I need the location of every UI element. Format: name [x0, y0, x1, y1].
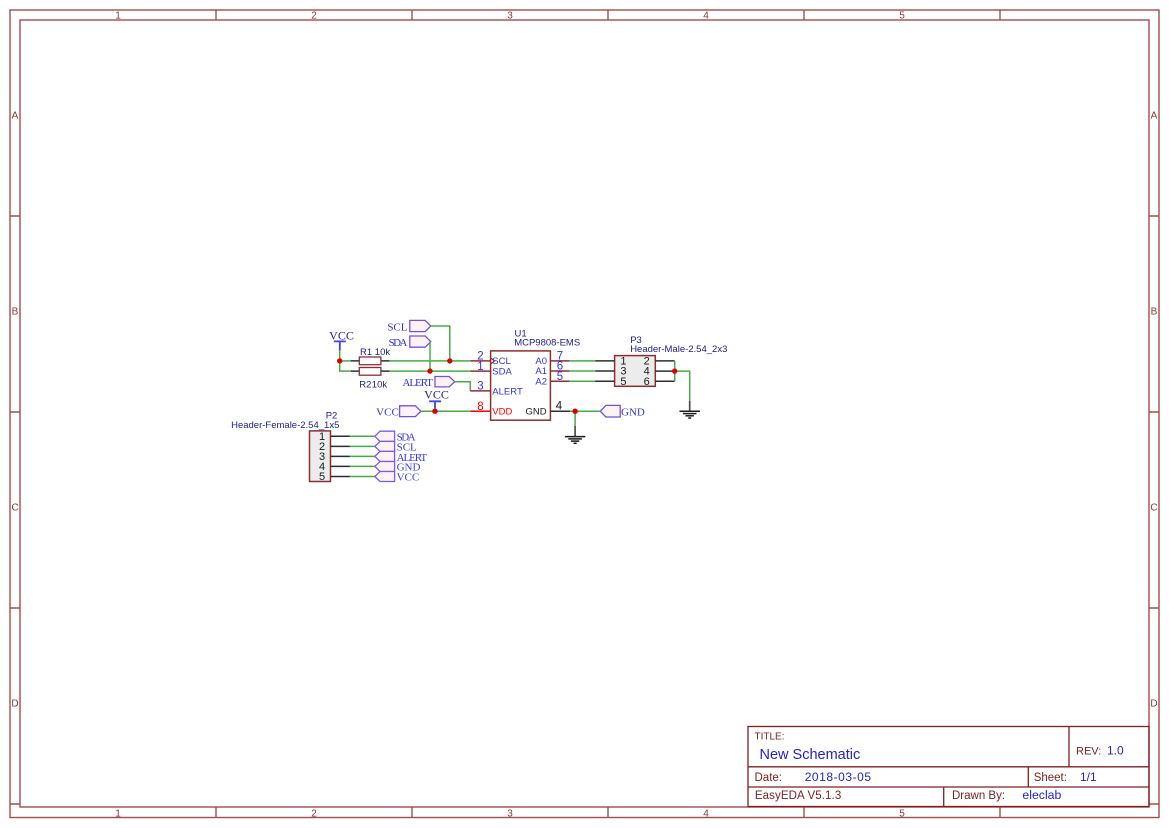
- junction node E: [572, 409, 577, 414]
- svg-text:VCC: VCC: [397, 472, 420, 484]
- wire VCC flag to U1 pin 8: [421, 410, 471, 412]
- U1 pin 6 A1: [535, 361, 569, 378]
- U1 pin 4 GND: [525, 401, 570, 418]
- P3 pin 3: [595, 366, 626, 378]
- svg-text:EasyEDA V5.1.3: EasyEDA V5.1.3: [755, 790, 841, 802]
- header P2 body: [310, 431, 331, 482]
- wire ALERT flag to U1 pin 3: [455, 382, 471, 391]
- IC U1 MCP9808-EMS body: [491, 351, 551, 420]
- net flag SCL (P2): [375, 441, 417, 453]
- P3 pin 1: [595, 356, 626, 368]
- wire U1 A0 to P3 pin1: [570, 360, 596, 362]
- svg-text:New Schematic: New Schematic: [760, 747, 861, 763]
- wire R2 right to U1 SDA: [390, 370, 471, 372]
- svg-text:GND: GND: [525, 407, 546, 418]
- wire U1 pin4 to GND flag: [570, 410, 600, 412]
- resistor R1: [351, 357, 390, 365]
- header P3 body: [615, 356, 656, 387]
- svg-text:D: D: [1150, 699, 1157, 710]
- svg-text:Header-Female-2.54_1x5: Header-Female-2.54_1x5: [231, 420, 339, 431]
- junction node F: [672, 368, 677, 373]
- U1 pin 2 SCL: [470, 351, 510, 368]
- wire SDA flag to node C: [429, 342, 431, 372]
- U1 pin 7 A0: [535, 351, 569, 368]
- wire SCL flag to node B: [431, 326, 450, 361]
- svg-text:4: 4: [556, 401, 563, 413]
- P2 pin 3: [319, 451, 350, 463]
- svg-text:VDD: VDD: [492, 407, 512, 418]
- junction node B: [447, 358, 452, 363]
- svg-text:8: 8: [477, 401, 483, 413]
- net flag VCC: [376, 406, 421, 419]
- resistor R2: [351, 368, 390, 376]
- svg-text:2: 2: [311, 11, 317, 22]
- svg-text:1: 1: [115, 809, 121, 820]
- svg-text:3: 3: [477, 381, 483, 393]
- svg-text:1/1: 1/1: [1080, 770, 1097, 784]
- net flag SDA: [389, 336, 431, 349]
- svg-text:5: 5: [899, 11, 905, 22]
- wire VCC mid stem: [434, 408, 436, 411]
- svg-text:5: 5: [899, 809, 905, 820]
- svg-text:6: 6: [644, 376, 650, 388]
- svg-text:2018-03-05: 2018-03-05: [805, 770, 872, 784]
- svg-text:C: C: [1150, 503, 1157, 514]
- svg-text:D: D: [11, 699, 18, 710]
- svg-text:5: 5: [319, 471, 325, 483]
- svg-text:A2: A2: [535, 376, 547, 387]
- svg-text:Sheet:: Sheet:: [1034, 772, 1067, 784]
- P2 pin 2: [319, 441, 350, 453]
- svg-text:1.0: 1.0: [1107, 743, 1124, 757]
- svg-text:2: 2: [311, 809, 317, 820]
- svg-text:SCL: SCL: [387, 321, 407, 333]
- svg-text:4: 4: [703, 809, 709, 820]
- svg-text:REV:: REV:: [1076, 745, 1101, 757]
- junction node A: [337, 358, 342, 363]
- svg-text:B: B: [1151, 307, 1158, 318]
- net flag SCL: [387, 320, 430, 333]
- svg-text:GND: GND: [621, 406, 645, 418]
- wire node E down to ground: [574, 411, 576, 426]
- net flag VCC (P2): [375, 472, 419, 484]
- svg-text:10k: 10k: [372, 379, 388, 390]
- junction node D: [432, 409, 437, 414]
- svg-text:ALERT: ALERT: [492, 386, 523, 397]
- net flag GND: [600, 405, 645, 418]
- svg-text:4: 4: [703, 11, 709, 22]
- P3 pin 5: [595, 376, 626, 388]
- svg-text:R1 10k: R1 10k: [360, 347, 390, 358]
- U1 pin 8 VDD: [470, 401, 512, 418]
- svg-text:Drawn By:: Drawn By:: [952, 790, 1005, 802]
- svg-text:1: 1: [115, 11, 121, 22]
- svg-text:MCP9808-EMS: MCP9808-EMS: [514, 338, 580, 349]
- svg-text:VCC: VCC: [376, 406, 399, 418]
- P3 pin 4: [644, 366, 675, 378]
- svg-text:Date:: Date:: [755, 772, 783, 784]
- wire P3 right vertical: [674, 361, 676, 381]
- wire U1 A1 to P3 pin3: [570, 370, 596, 372]
- power flag VCC (left): [329, 329, 354, 351]
- wire R1 right to U1 SCL: [390, 360, 471, 362]
- TITLEBLOCK: [748, 727, 1149, 807]
- net flag GND (P2): [375, 462, 421, 474]
- svg-text:5: 5: [557, 371, 563, 383]
- svg-text:5: 5: [620, 376, 626, 388]
- U1 pin 1 SDA: [470, 361, 512, 378]
- wire node F to ground 2: [675, 371, 690, 401]
- U1 pin 5 A2: [535, 371, 569, 388]
- wire P2 pin1 to SDA flag: [350, 435, 375, 437]
- svg-text:SDA: SDA: [492, 366, 512, 377]
- net flag ALERT: [403, 377, 455, 389]
- svg-text:A: A: [12, 111, 19, 122]
- wire P2 pin4 to GND flag: [350, 465, 375, 467]
- svg-text:1: 1: [477, 361, 483, 373]
- net flag SDA (P2): [375, 431, 416, 444]
- P2 pin 5: [319, 471, 350, 483]
- P2 pin 1: [319, 431, 350, 443]
- junction node C: [427, 368, 432, 373]
- svg-text:A: A: [1151, 111, 1158, 122]
- U1 pin 3 ALERT: [470, 381, 523, 398]
- svg-text:SDA: SDA: [389, 337, 408, 349]
- ground symbol 2: [680, 401, 700, 418]
- wire node A down to R2 row: [340, 361, 351, 371]
- wire node A to R1 left: [340, 360, 351, 362]
- svg-text:eleclab: eleclab: [1022, 788, 1061, 802]
- wire P2 pin5 to VCC flag: [350, 476, 375, 478]
- net flag ALERT (P2): [375, 451, 428, 463]
- svg-text:C: C: [11, 503, 18, 514]
- wire U1 A2 to P3 pin5: [570, 380, 596, 382]
- svg-text:B: B: [12, 307, 19, 318]
- svg-text:3: 3: [507, 11, 513, 22]
- svg-text:3: 3: [507, 809, 513, 820]
- wire P2 pin3 to ALERT flag: [350, 455, 375, 457]
- svg-text:Header-Male-2.54_2x3: Header-Male-2.54_2x3: [630, 344, 727, 355]
- ground symbol 1: [565, 426, 585, 443]
- P3 pin 2: [644, 356, 675, 368]
- P3 pin 6: [644, 376, 675, 388]
- wire P2 pin2 to SCL flag: [350, 445, 375, 447]
- wire VCC stem to node A: [339, 350, 341, 361]
- power flag VCC (mid): [424, 388, 449, 409]
- P2 pin 4: [319, 461, 350, 473]
- svg-text:TITLE:: TITLE:: [755, 731, 785, 742]
- svg-text:R2: R2: [359, 379, 371, 390]
- svg-text:VCC: VCC: [424, 388, 449, 402]
